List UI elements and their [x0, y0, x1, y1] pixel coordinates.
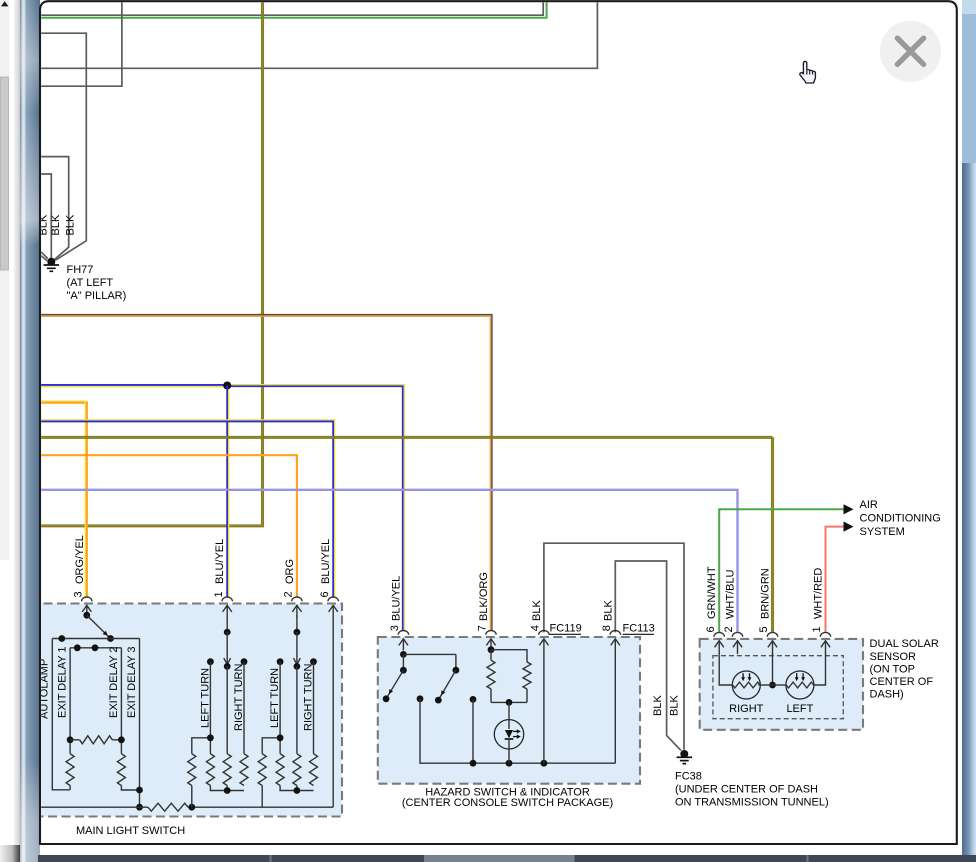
svg-text:LEFT TURN: LEFT TURN: [199, 668, 211, 728]
wire from left edge into ground (upper): [38, 249, 48, 259]
MLS pin6 internal column to bus: [332, 617, 334, 807]
svg-text:8: 8: [601, 625, 613, 631]
wire WHT/RED red to sensor pin1 and AC system: [826, 527, 844, 633]
pin 8 arrow: [614, 639, 616, 651]
MLS pin1 internal shaft: [226, 616, 228, 633]
svg-text:RIGHT: RIGHT: [729, 703, 764, 715]
svg-text:EXIT DELAY 3: EXIT DELAY 3: [126, 646, 138, 718]
pin 3 arrow: [402, 639, 404, 651]
MLS turn group 2 center resistor column: [296, 666, 298, 753]
scrollbar up arrow: [1, 1, 9, 6]
MLS turn group 2 RIGHT TURN column: [310, 658, 317, 665]
svg-text:2: 2: [723, 626, 735, 632]
pin 1 arrow: [825, 640, 827, 654]
MLS switch blade: [87, 615, 111, 638]
svg-text:EXIT DELAY 1: EXIT DELAY 1: [57, 646, 69, 718]
svg-text:EXIT DELAY 2: EXIT DELAY 2: [108, 646, 120, 718]
svg-text:3: 3: [389, 625, 401, 631]
ground FH77: [44, 258, 59, 272]
svg-text:LEFT: LEFT: [786, 703, 813, 715]
hazard pin4 column: [543, 650, 545, 763]
svg-text:BLU/YEL: BLU/YEL: [390, 576, 402, 621]
svg-text:FC113: FC113: [623, 623, 655, 635]
close button: [880, 21, 941, 82]
pin 6 arrow: [718, 640, 720, 654]
pin 8 HAZARD connector arc: [610, 630, 620, 634]
hazard contacts: [417, 695, 424, 702]
svg-text:SENSOR: SENSOR: [870, 651, 917, 663]
photocell LEFT: [786, 671, 814, 699]
svg-text:1: 1: [213, 591, 225, 597]
wire gray C from top x597 down to y67 across: [38, 2, 597, 68]
MLS EXIT DELAY 2 column with resistor: [120, 648, 122, 754]
wire BLK2 from y156.6 via x68.7 down to ground: [38, 157, 69, 260]
pin 1 SENSOR connector arc: [820, 632, 830, 636]
svg-text:BLK: BLK: [64, 214, 76, 235]
junction node on blue wire: [223, 382, 231, 390]
pin 2 arrow: [296, 605, 298, 617]
arrow to air conditioning system (red): [844, 522, 854, 532]
svg-text:SYSTEM: SYSTEM: [860, 526, 905, 538]
wire BRN/GRN y437.3 to sensor pin5 (GRN+BRN pair): [38, 437, 772, 633]
pin 6 MAIN LIGHT SWITCH connector arc: [328, 597, 338, 601]
wire BLK hazard pin8 up over to x666.6 down to FC38: [615, 561, 681, 751]
wire BLK top horizontal to X543: [38, 2, 543, 15]
MLS turn group 2 LEFT TURN column: [277, 658, 284, 665]
pin 2 arrow: [737, 640, 739, 654]
wire ORG/YEL y402.5 to MLS pin3 (ORG+YEL pair): [38, 403, 87, 598]
MLS turn group 2 wiper arrow: [294, 629, 301, 636]
photocell RIGHT: [732, 671, 760, 699]
MLS turn group 1 center resistor column: [226, 666, 228, 753]
sensor inner dashed box: [713, 656, 843, 719]
MLS AUTOLAMP column: [52, 639, 70, 790]
svg-text:ORG: ORG: [284, 559, 296, 584]
wire BLK1 from y174 via x51.3 down to ground: [38, 174, 51, 258]
MLS turn group 1 LEFT TURN column: [207, 658, 214, 665]
svg-text:ON TRANSMISSION TUNNEL): ON TRANSMISSION TUNNEL): [675, 797, 829, 809]
hazard indicator LED: [508, 702, 510, 719]
wire WHT/BLU periwinkle y489.8 to sensor pin2: [38, 490, 738, 633]
svg-text:7: 7: [477, 625, 489, 631]
svg-text:GRN/WHT: GRN/WHT: [706, 566, 718, 619]
pin 7 HAZARD connector arc: [486, 630, 496, 634]
wire BLK hazard pin4 up over to x684 down to FC38: [544, 543, 684, 750]
pin 4 HAZARD connector arc: [539, 631, 549, 635]
svg-text:(ON TOP: (ON TOP: [870, 664, 915, 676]
svg-text:BLK: BLK: [669, 695, 681, 716]
wire BLU/YEL branch down to MLS pin1: [226, 386, 228, 598]
wire gray D from top x122 down to y86.5: [38, 2, 122, 86]
hazard bottom bus: [473, 762, 615, 764]
svg-text:6: 6: [705, 626, 717, 632]
svg-text:DUAL SOLAR: DUAL SOLAR: [870, 638, 939, 650]
pin 6 SENSOR connector arc: [714, 632, 724, 636]
svg-text:AIR: AIR: [860, 499, 878, 511]
svg-text:CENTER OF: CENTER OF: [870, 676, 934, 688]
left scrollbar track: [0, 0, 9, 560]
pin 6 arrow: [332, 605, 334, 617]
svg-text:BLK: BLK: [531, 600, 543, 621]
svg-text:FC119: FC119: [550, 623, 582, 635]
pin 5 arrow: [772, 640, 774, 654]
svg-text:2: 2: [283, 591, 295, 597]
pin 1 arrow: [226, 605, 228, 617]
svg-text:RIGHT TURN: RIGHT TURN: [303, 664, 315, 731]
svg-text:FH77: FH77: [67, 264, 94, 276]
ground FC38: [677, 750, 692, 764]
wire from left edge into ground (lower): [38, 254, 47, 261]
svg-text:4: 4: [530, 625, 542, 631]
MLS pin2 internal shaft: [296, 616, 298, 633]
svg-text:5: 5: [758, 626, 770, 632]
svg-text:DASH): DASH): [870, 689, 904, 701]
bottom table header bar: [38, 855, 976, 862]
hazard contact columns to bus: [420, 699, 473, 763]
MLS EXIT DELAY 3 column: [139, 639, 141, 808]
wire GRN/WHT green to sensor pin6 and AC system: [719, 509, 843, 633]
hazard pin8 column: [614, 650, 616, 763]
component box DUAL SOLAR SENSOR: [700, 639, 863, 730]
MLS horizontal resistor between delay columns: [70, 739, 80, 741]
MLS bottom bus with resistor: [30, 806, 148, 808]
wire GRN top horizontal to X545: [38, 2, 547, 18]
svg-text:3: 3: [73, 591, 85, 597]
component box HAZARD SWITCH & INDICATOR: [378, 637, 640, 784]
MLS wire line1: [52, 638, 139, 640]
sensor pin5 wire to center node: [772, 653, 774, 685]
right window strip: [958, 0, 962, 862]
MLS turn group 1 outer column with resistor: [191, 786, 193, 808]
svg-text:BLK/ORG: BLK/ORG: [478, 572, 490, 621]
hazard pin7 resistors: [488, 646, 495, 653]
wire olive long vertical x262.5 to y525.8 then left (GRN+BRN pair): [38, 2, 262, 525]
wire BLU/YEL y385.5 to hazard pin3 (BLU+YEL pair, tracer swaps at junction): [38, 384, 224, 386]
svg-text:ORG/YEL: ORG/YEL: [74, 535, 86, 584]
pin 3 HAZARD connector arc: [398, 631, 408, 635]
mouse hand cursor: [800, 61, 816, 83]
MLS EXIT DELAY 1 column with resistor: [69, 648, 71, 754]
svg-text:(UNDER CENTER OF DASH: (UNDER CENTER OF DASH: [675, 784, 818, 796]
pin 2 SENSOR connector arc: [732, 632, 742, 636]
svg-text:6: 6: [319, 591, 331, 597]
pin 2 MAIN LIGHT SWITCH connector arc: [292, 597, 302, 601]
MLS turn group 1 wiper arrow: [224, 629, 231, 636]
component box MAIN LIGHT SWITCH: [30, 604, 342, 817]
svg-text:WHT/RED: WHT/RED: [813, 568, 825, 619]
pin 3 arrow: [86, 605, 88, 617]
wire BLK3 from y33.4 via x85.6 down to ground FH77: [38, 33, 86, 260]
svg-text:BLK: BLK: [602, 600, 614, 621]
wire ORG y455.2 to MLS pin2: [38, 455, 297, 597]
svg-text:"A" PILLAR): "A" PILLAR): [67, 290, 127, 302]
svg-text:RIGHT TURN: RIGHT TURN: [233, 664, 245, 731]
svg-text:CONDITIONING: CONDITIONING: [860, 513, 941, 525]
wire BLK/ORG y315.4 to hazard pin7 (BLK+ORG pair): [38, 315, 492, 631]
MLS turn group 2 outer column with resistor: [261, 786, 263, 808]
svg-text:1: 1: [811, 626, 823, 632]
svg-text:BRN/GRN: BRN/GRN: [760, 568, 772, 619]
pin 1 MAIN LIGHT SWITCH connector arc: [222, 597, 232, 601]
svg-text:(AT LEFT: (AT LEFT: [67, 277, 114, 289]
pin 4 arrow: [543, 639, 545, 651]
pin 7 arrow: [490, 639, 492, 651]
pin 3 MAIN LIGHT SWITCH connector arc: [82, 597, 92, 601]
wire BLU/YEL y421.4 to MLS pin6 (BLU+YEL pair): [38, 421, 333, 597]
svg-text:MAIN LIGHT SWITCH: MAIN LIGHT SWITCH: [76, 825, 185, 837]
hazard switch pole1: [400, 651, 407, 658]
sensor pin6 wire to photocell: [719, 653, 732, 685]
MLS wire line2: [70, 647, 121, 649]
MLS autolamp switch common dot: [83, 612, 90, 619]
sensor pin1 wire: [814, 653, 826, 685]
hazard switch pole2: [403, 653, 456, 655]
svg-text:BLU/YEL: BLU/YEL: [214, 539, 226, 584]
arrow to air conditioning system (green): [844, 504, 854, 514]
svg-text:BLK: BLK: [50, 214, 62, 235]
MLS turn group 1 RIGHT TURN column: [241, 658, 248, 665]
pin 5 SENSOR connector arc: [767, 632, 777, 636]
svg-text:WHT/BLU: WHT/BLU: [725, 569, 737, 619]
svg-text:BLK: BLK: [652, 695, 664, 716]
scrollbar thumb: [1, 77, 9, 270]
svg-text:FC38: FC38: [675, 771, 702, 783]
svg-text:(CENTER CONSOLE SWITCH PACKAGE: (CENTER CONSOLE SWITCH PACKAGE): [402, 797, 613, 809]
svg-text:LEFT TURN: LEFT TURN: [269, 668, 281, 728]
svg-text:BLU/YEL: BLU/YEL: [320, 539, 332, 584]
